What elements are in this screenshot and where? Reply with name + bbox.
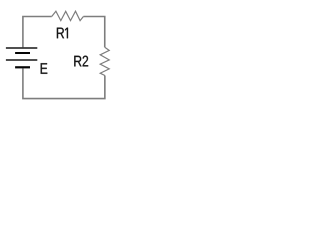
battery E long plate 1 (positive) [6,47,37,49]
label R2 [74,56,88,67]
battery E long plate 2 (positive) [6,59,37,61]
battery E short plate 1 (negative) [15,52,30,54]
wire: from R2 down, across bottom, up to battery bottom plate [23,69,105,99]
resistor R1 zigzag [52,11,84,20]
battery E short plate 2 (negative) [15,66,30,68]
label E [41,63,48,74]
wire: left rail from battery top plate up and top rail to R1 [23,17,52,48]
label R1 [57,28,68,39]
resistor R2 zigzag [100,47,109,75]
wire: from R1 to top-right corner, down to R2 [83,17,104,48]
